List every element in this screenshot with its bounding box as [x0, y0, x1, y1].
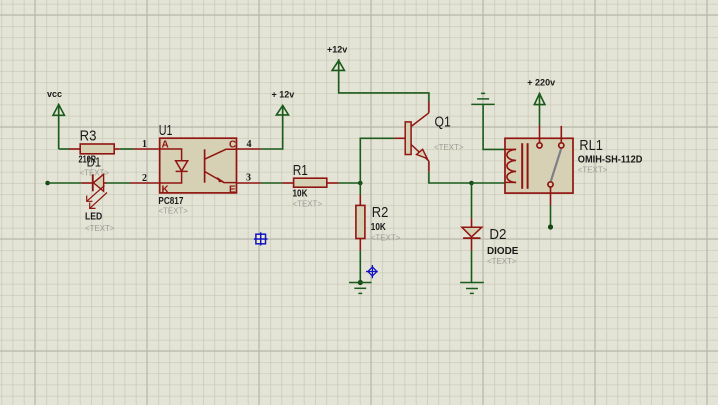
junction dot R2 ground	[358, 280, 363, 285]
wire node C to relay coil	[472, 182, 506, 184]
svg-text:10K: 10K	[371, 222, 387, 233]
svg-text:RL1: RL1	[579, 138, 602, 154]
wire Q1 emitter to node C	[429, 172, 472, 183]
svg-text:<TEXT>: <TEXT>	[85, 223, 115, 233]
power symbol +12v right	[332, 61, 344, 71]
svg-text:3: 3	[246, 173, 251, 184]
svg-text:<TEXT>: <TEXT>	[158, 206, 188, 216]
svg-text:Q1: Q1	[435, 115, 451, 131]
wire node B to Q1 base	[360, 138, 394, 183]
power symbol VCC	[53, 104, 64, 149]
transistor Q1	[394, 102, 429, 172]
wire vcc to R3	[59, 148, 70, 150]
wire D2 to ground	[471, 250, 473, 282]
svg-text:<TEXT>: <TEXT>	[434, 142, 464, 152]
resistor R2	[356, 195, 365, 251]
marker blue diamond	[366, 265, 378, 278]
wire LED to U1 pin2	[107, 182, 131, 184]
ground below R2	[349, 283, 372, 294]
power symbol +12v left	[276, 106, 288, 115]
resistor R3	[69, 144, 120, 154]
resistor R1	[282, 178, 339, 187]
optocoupler U1	[130, 138, 261, 193]
wire +220v to relay	[539, 93, 541, 126]
svg-text:D2: D2	[489, 227, 506, 243]
svg-text:C: C	[229, 140, 236, 151]
svg-text:<TEXT>: <TEXT>	[80, 168, 110, 178]
LED D1	[81, 174, 107, 208]
svg-text:R3: R3	[80, 129, 97, 145]
wire node B to R2	[359, 183, 361, 195]
svg-text:<TEXT>: <TEXT>	[371, 232, 401, 242]
svg-text:vcc: vcc	[47, 89, 62, 99]
svg-text:E: E	[229, 185, 236, 196]
diode D2	[462, 218, 482, 250]
node A junction dot	[45, 181, 50, 186]
svg-text:<TEXT>: <TEXT>	[293, 198, 323, 208]
node B junction dot	[358, 181, 363, 186]
wire +12v to Q1 collector	[339, 59, 429, 101]
svg-text:+12v: +12v	[327, 45, 347, 55]
svg-text:R2: R2	[372, 205, 389, 221]
svg-text:<TEXT>: <TEXT>	[578, 165, 608, 175]
svg-text:4: 4	[247, 139, 252, 150]
wire R1 to node B	[339, 182, 361, 184]
wire relay pin to node D	[550, 205, 552, 227]
wire node C to D2	[471, 183, 473, 218]
svg-text:<TEXT>: <TEXT>	[487, 256, 517, 266]
power symbol +220v	[534, 94, 545, 105]
wire R2 to ground	[359, 251, 361, 283]
svg-text:+ 12v: + 12v	[272, 90, 295, 100]
svg-text:R1: R1	[293, 163, 308, 179]
ground above relay	[471, 93, 494, 104]
ground below D2	[460, 283, 484, 294]
wire node A to LED	[48, 182, 82, 184]
wire U1 pin3 to R1	[261, 182, 282, 184]
svg-text:+ 220v: + 220v	[527, 78, 555, 88]
svg-text:U1: U1	[159, 123, 173, 139]
wire relay ground to coil pin	[483, 104, 505, 149]
svg-text:A: A	[162, 140, 169, 151]
marker blue square	[254, 232, 268, 245]
node C junction dot	[469, 181, 474, 186]
relay RL1	[505, 126, 573, 206]
node D junction dot	[548, 224, 553, 229]
svg-text:LED: LED	[85, 211, 102, 222]
svg-text:K: K	[162, 185, 170, 196]
wire R3 to U1 pin1	[120, 148, 134, 150]
wire U1 pin4 to +12v	[261, 105, 283, 149]
